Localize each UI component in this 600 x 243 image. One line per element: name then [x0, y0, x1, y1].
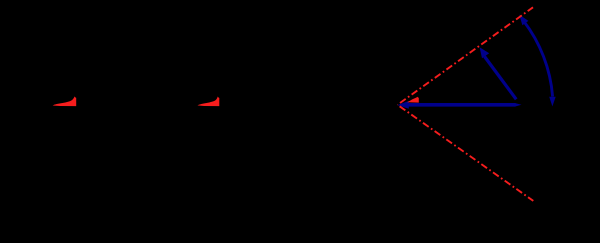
- wire: diagonal blue arrow shaft: [485, 57, 517, 100]
- wire: blue angle arc: [524, 21, 553, 97]
- node H: red angle arrow at vertex: [407, 97, 419, 103]
- wire: upper red dash-dot ray: [398, 7, 534, 105]
- node G: red angle arrow (second observer): [198, 97, 220, 107]
- node F: red angle arrow (left observer): [53, 96, 77, 106]
- node A: left arrowhead of horizontal vector (tip at vertex): [397, 101, 409, 109]
- wire: lower red dash-dot ray: [398, 105, 534, 201]
- node E: arc bottom arrowhead: [549, 97, 556, 107]
- node C: diagonal arrow head (points up-left to dashed line): [480, 47, 490, 58]
- node D: arc top arrowhead: [519, 15, 528, 26]
- wire: horizontal blue vector shaft: [406, 103, 516, 107]
- node B: small right arrowhead of horizontal vector: [515, 103, 522, 107]
